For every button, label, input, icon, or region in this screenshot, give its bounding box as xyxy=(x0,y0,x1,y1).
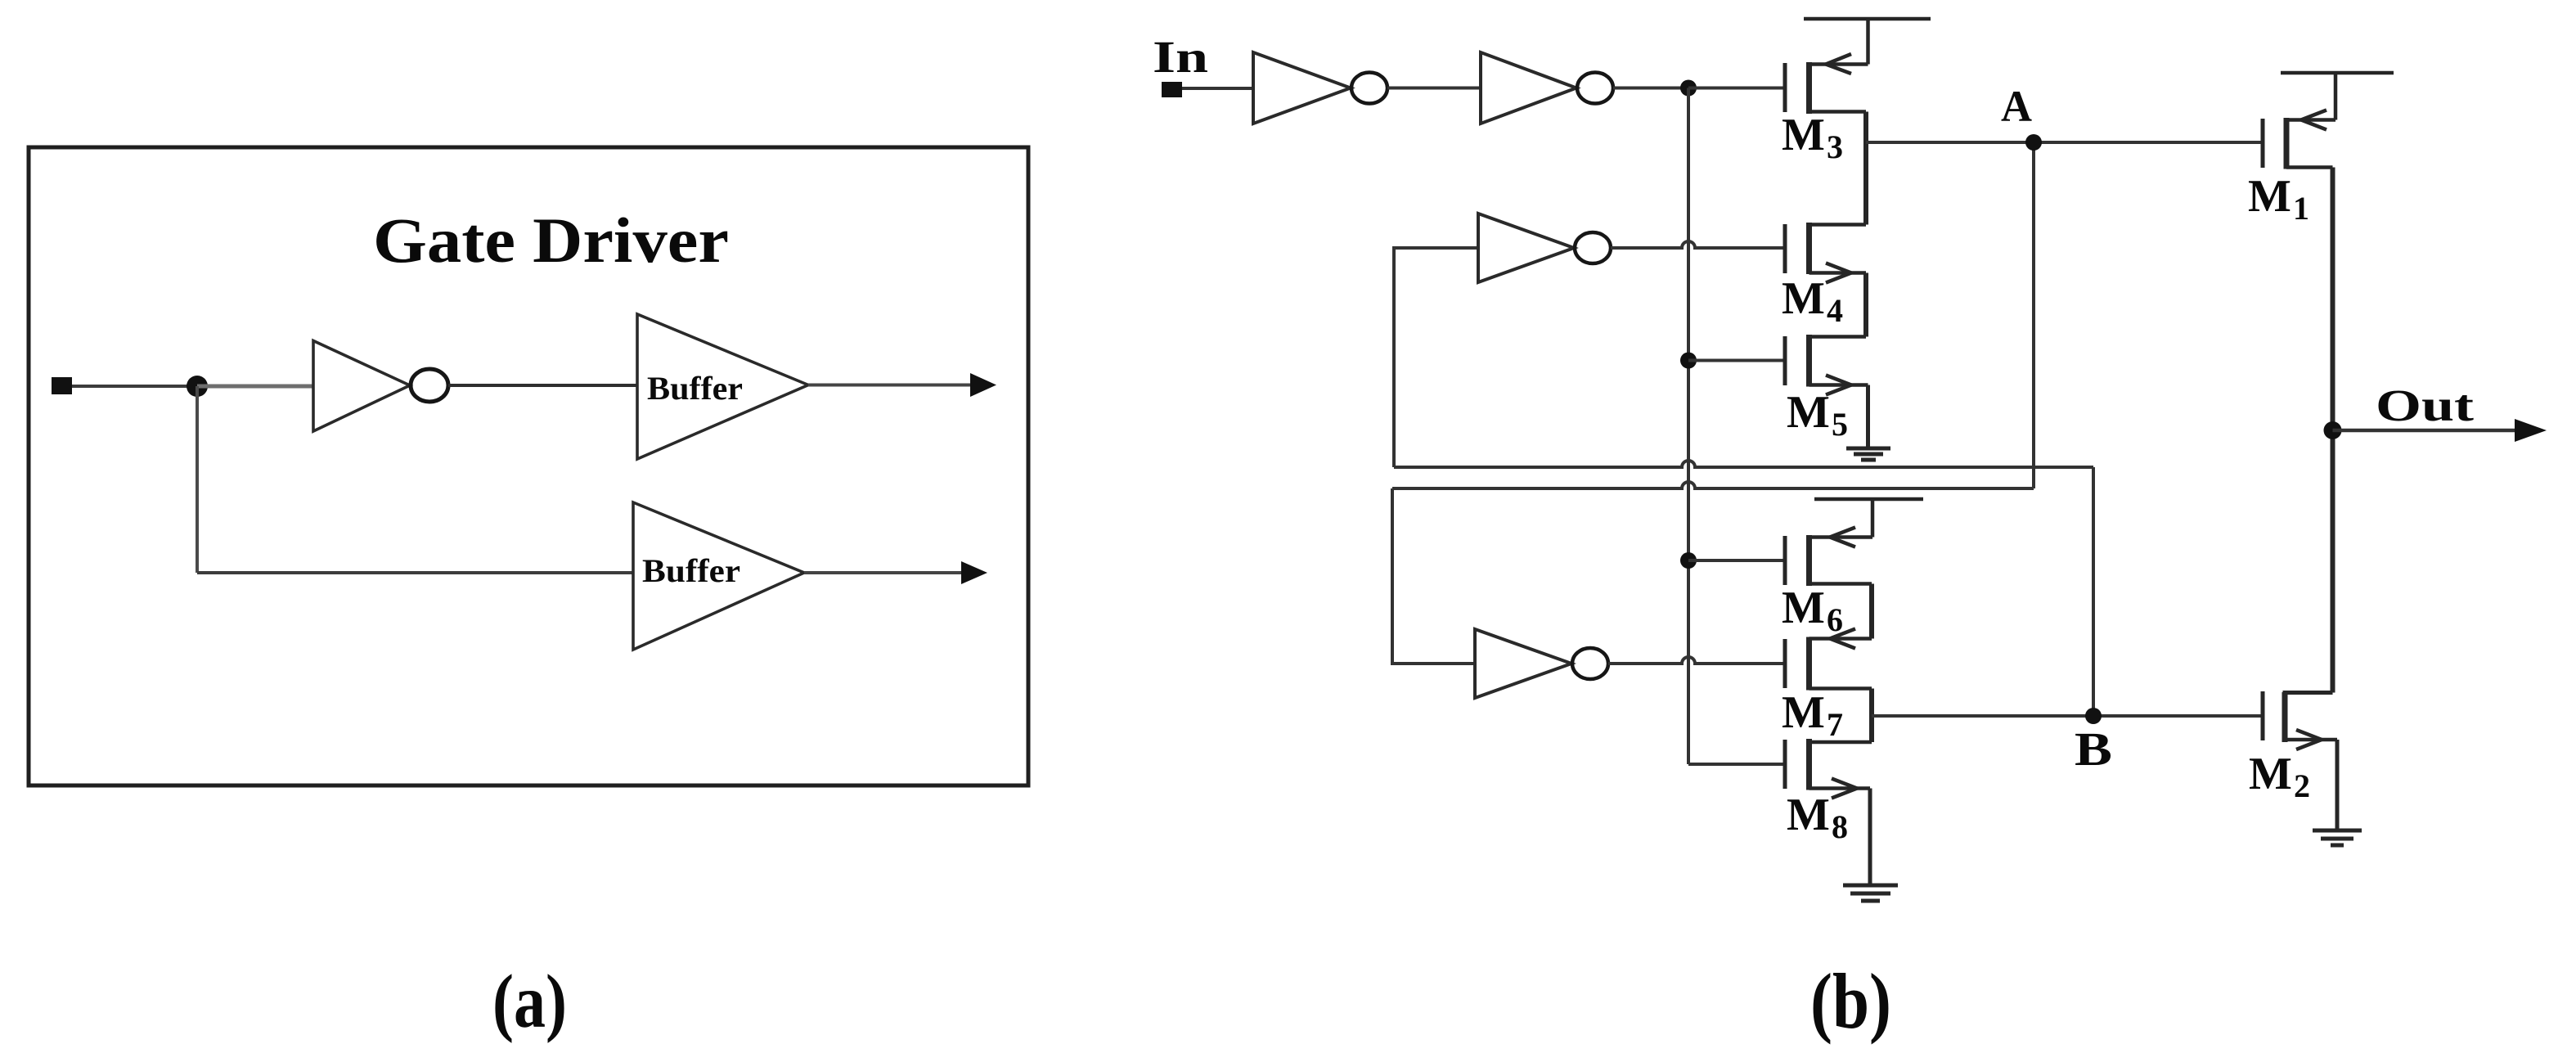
transistor M3 (PMOS) xyxy=(1785,19,1931,114)
svg-text:M: M xyxy=(1782,273,1825,324)
wire node n3 to M6 gate xyxy=(1688,559,1783,562)
svg-text:7: 7 xyxy=(1827,706,1843,743)
inverter 1 triangle xyxy=(1253,52,1351,124)
wire In to inverter1 xyxy=(1182,87,1253,90)
inverter 3 triangle xyxy=(1478,214,1574,282)
node A wire xyxy=(1866,141,2261,144)
inverter bubble (a) xyxy=(411,369,448,402)
buffer 2 output wire xyxy=(804,571,969,574)
bus vertical n1 down xyxy=(1687,88,1690,765)
Out wire xyxy=(2333,429,2520,433)
feedback vertical to node B xyxy=(2092,467,2095,716)
svg-text:5: 5 xyxy=(1832,406,1848,443)
wire node n1 to M3 gate xyxy=(1688,87,1783,90)
feedback vertical to node A xyxy=(2032,142,2035,488)
svg-text:Buffer: Buffer xyxy=(642,552,740,589)
svg-text:Out: Out xyxy=(2376,380,2475,430)
inverter 4 triangle xyxy=(1475,629,1571,698)
inverter triangle (a) xyxy=(313,341,410,432)
transistor M7 (PMOS) xyxy=(1785,629,1872,691)
wire M7 drain to M8 drain xyxy=(1869,689,1874,743)
svg-text:M: M xyxy=(1787,387,1830,438)
svg-text:A: A xyxy=(2001,82,2032,131)
wire node down xyxy=(196,386,199,573)
svg-text:M: M xyxy=(1782,687,1825,738)
transistor M5 (NMOS) xyxy=(1785,335,1868,395)
wire inverter2 to node n1 xyxy=(1613,87,1688,90)
svg-text:Gate Driver: Gate Driver xyxy=(373,205,729,276)
svg-text:In: In xyxy=(1153,32,1208,82)
transistor M6 (PMOS) xyxy=(1785,499,1923,586)
buffer 1 triangle xyxy=(637,314,808,459)
ground below M8 xyxy=(1843,885,1898,901)
wire to buffer 2 xyxy=(197,571,633,574)
buffer 1 output wire xyxy=(808,384,978,387)
Out node dot xyxy=(2324,421,2342,439)
wire M5 source down xyxy=(1866,385,1870,449)
inverter 2 triangle xyxy=(1481,52,1576,124)
input terminal square xyxy=(52,377,72,394)
svg-text:M: M xyxy=(2248,171,2291,222)
inverter 2 bubble xyxy=(1577,73,1613,104)
gate driver block box xyxy=(29,147,1028,785)
wire inverter1 to inverter2 xyxy=(1387,87,1481,90)
node n3 dot (M6 gate tap) xyxy=(1680,552,1697,569)
node n1 dot xyxy=(1680,80,1697,97)
svg-text:M: M xyxy=(2249,749,2292,799)
inverter 3 output wire to M4 gate (hop over bus) xyxy=(1611,241,1783,248)
wire M6 drain to M7 source xyxy=(1869,584,1874,639)
buffer 2 triangle xyxy=(633,502,804,650)
node B wire xyxy=(1872,714,2261,718)
In terminal square xyxy=(1162,82,1182,97)
svg-text:8: 8 xyxy=(1832,808,1848,845)
transistor M1 (PMOS) xyxy=(2263,73,2394,169)
svg-text:M: M xyxy=(1782,110,1825,160)
svg-text:2: 2 xyxy=(2294,767,2310,804)
wire input to node xyxy=(72,385,197,388)
svg-text:3: 3 xyxy=(1827,128,1843,165)
node A dot xyxy=(2025,134,2042,151)
svg-text:M: M xyxy=(1782,583,1825,633)
transistor M2 (NMOS) xyxy=(2263,691,2337,749)
wire M2 source down xyxy=(2335,740,2340,830)
inverter 1 bubble xyxy=(1351,73,1387,104)
svg-text:M: M xyxy=(1787,790,1830,840)
svg-text:(a): (a) xyxy=(492,960,567,1044)
upper feedback wire B to inverter3 (hop over bus) xyxy=(1394,461,2093,467)
svg-text:Buffer: Buffer xyxy=(647,370,743,407)
inverter 4 output wire to M7 gate (hop over bus) xyxy=(1608,657,1783,664)
wire M4 source to M5 drain xyxy=(1863,273,1868,337)
wire node n2 to M5 gate xyxy=(1688,359,1783,362)
wire M3 drain to M4 drain xyxy=(1863,112,1868,225)
inverter 4 bubble xyxy=(1572,648,1608,679)
lower feedback wire A to inverter4 (hop over bus) xyxy=(1392,482,2034,488)
inverter 4 input wire xyxy=(1392,488,1475,664)
buffer 1 output arrow xyxy=(970,373,996,397)
svg-text:B: B xyxy=(2075,722,2112,776)
transistor M4 (NMOS) xyxy=(1785,223,1866,283)
bus elbow to M8 gate xyxy=(1688,763,1783,766)
wire bubble to buffer 1 xyxy=(448,384,637,387)
wire jog to M2 drain xyxy=(2285,693,2333,695)
ground below M2 xyxy=(2313,830,2362,845)
transistor M8 (NMOS) xyxy=(1785,739,1872,799)
inverter 3 input wire xyxy=(1394,248,1478,467)
wire M8 source down xyxy=(1868,789,1872,886)
svg-text:(b): (b) xyxy=(1810,957,1891,1045)
node B dot xyxy=(2085,708,2102,724)
node n2 dot (M5 gate tap) xyxy=(1680,353,1697,369)
node junction dot xyxy=(187,376,208,397)
svg-text:1: 1 xyxy=(2293,190,2309,227)
wire M1 drain down to Out xyxy=(2331,168,2335,693)
svg-text:4: 4 xyxy=(1827,292,1843,329)
inverter 3 bubble xyxy=(1575,232,1611,263)
Out arrow xyxy=(2515,419,2547,442)
buffer 2 output arrow xyxy=(961,561,987,584)
ground below M5 xyxy=(1846,448,1890,460)
wire node to inverter xyxy=(197,385,313,389)
